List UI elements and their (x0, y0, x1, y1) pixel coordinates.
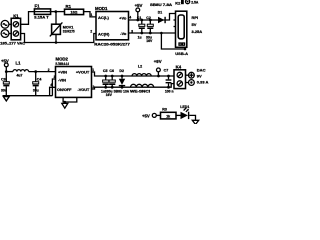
wire R3 to LED1 (176, 114, 181, 116)
AC source upper (1, 20, 11, 28)
wire MOD1 -Vo ground rail (129, 32, 176, 34)
svg-text:33u: 33u (33, 89, 39, 93)
svg-text:L1: L1 (16, 61, 22, 66)
svg-text:S10K275: S10K275 (63, 29, 75, 33)
DC/DC module MOD2 (56, 57, 92, 98)
svg-text:0.33 A: 0.33 A (197, 79, 209, 84)
capacitor C6 (105, 69, 116, 97)
choke L2 bottom winding (130, 84, 154, 93)
svg-text:+5V: +5V (135, 3, 143, 8)
AC source lower (1, 30, 11, 38)
connector K4 (174, 65, 186, 89)
supply +5V bottom left (1, 58, 9, 71)
svg-text:+Vo: +Vo (119, 15, 127, 20)
inductor L1 (13, 61, 29, 78)
svg-text:ON/OFF: ON/OFF (57, 88, 72, 92)
capacitor C4 (33, 72, 42, 96)
cropped top-right symbol (181, 0, 199, 4)
supply +5V LED (142, 113, 161, 118)
capacitor C3 (1, 72, 9, 96)
svg-text:USB-A: USB-A (175, 51, 188, 56)
svg-text:4: 4 (129, 15, 131, 19)
polarity minus symbol (186, 80, 195, 86)
resistor R3 (161, 108, 177, 119)
wire R1 to MOD1 pin 1 (84, 12, 96, 17)
wire MOD2 -VIN (52, 79, 55, 96)
node +5V junction (136, 19, 139, 22)
svg-text:D2: D2 (119, 69, 124, 73)
svg-text:K4: K4 (176, 65, 182, 70)
node shield junction (160, 32, 163, 35)
svg-text:WE-SNCI: WE-SNCI (130, 89, 150, 93)
ground MOD2 (62, 102, 68, 108)
node L1 input (5, 70, 8, 73)
svg-text:SB8U 7.8A: SB8U 7.8A (150, 3, 173, 7)
supply +9V (154, 59, 162, 76)
svg-text:SB8U 13A: SB8U 13A (114, 89, 130, 93)
svg-text:R1: R1 (66, 4, 72, 9)
svg-text:C5: C5 (103, 69, 108, 73)
svg-text:D1: D1 (158, 11, 162, 15)
diode D2 (114, 69, 130, 93)
node junction fuse/MOV (54, 10, 57, 13)
resistor R1 (65, 4, 84, 14)
svg-text:MOD1: MOD1 (95, 6, 108, 11)
wire K4 lower pin (169, 84, 175, 88)
svg-text:2: 2 (48, 68, 50, 72)
svg-text:3.15A T: 3.15A T (34, 15, 49, 19)
svg-text:+VOUT: +VOUT (76, 70, 90, 75)
capacitor C7 (164, 69, 174, 94)
svg-text:RAC20-05SK/277: RAC20-05SK/277 (94, 43, 130, 47)
svg-text:-Vo: -Vo (120, 31, 127, 36)
svg-text:16V: 16V (106, 93, 113, 97)
fuse F1 (34, 3, 50, 19)
svg-text:LED1: LED1 (180, 105, 189, 109)
wire MOD1 +Vo rail (129, 14, 176, 21)
polarity plus symbol (186, 72, 195, 78)
svg-text:1: 1 (92, 68, 94, 72)
wire MOD2 -VOUT rail (92, 87, 169, 89)
node junction MOV/bottom rail (55, 41, 58, 44)
svg-text:RPi: RPi (192, 15, 199, 20)
svg-text:AC(N): AC(N) (98, 31, 110, 36)
svg-text:9V: 9V (197, 73, 202, 78)
svg-text:1: 1 (91, 13, 93, 17)
svg-text:DAC: DAC (197, 68, 206, 73)
wire LED1 to ground (189, 115, 195, 120)
svg-text:L2: L2 (138, 65, 142, 69)
svg-text:1k: 1k (166, 115, 170, 119)
svg-text:C6: C6 (109, 69, 114, 73)
capacitor C5 (101, 69, 109, 93)
node dots output rails (104, 75, 107, 78)
choke L2 top winding (132, 65, 151, 77)
svg-text:4: 4 (50, 83, 52, 87)
wire K1 top to fuse (21, 12, 35, 25)
svg-text:K2: K2 (175, 1, 181, 6)
wire shield path (161, 33, 185, 49)
svg-text:3: 3 (131, 29, 133, 33)
wire MOD2 ON/OFF (50, 87, 56, 95)
svg-text:2: 2 (93, 85, 95, 89)
ground LED (192, 120, 198, 124)
svg-text:R3: R3 (162, 108, 167, 112)
AC/DC module MOD1 (94, 6, 130, 47)
connector K1 (11, 13, 20, 40)
svg-text:+VIN: +VIN (58, 70, 67, 75)
wire MOD2 bottom pins to ground (63, 97, 77, 102)
capacitor C2 (146, 16, 153, 43)
svg-text:C4: C4 (37, 77, 42, 81)
svg-text:K1: K1 (13, 13, 19, 18)
connector K2 USB-A (174, 1, 189, 56)
svg-text:+5V: +5V (142, 114, 150, 119)
svg-text:R-78B9.0-2.0: R-78B9.0-2.0 (56, 62, 70, 66)
wire +5V rail (6, 71, 13, 73)
svg-text:1u: 1u (138, 36, 142, 40)
svg-text:2: 2 (90, 30, 92, 34)
svg-text:F1: F1 (35, 3, 41, 8)
diode D1 (150, 3, 173, 23)
ground (3, 96, 9, 101)
svg-text:C1: C1 (137, 16, 142, 20)
svg-text:10Ω: 10Ω (71, 11, 78, 15)
wire ground rail bottom left (3, 95, 53, 97)
svg-text:4u7: 4u7 (17, 73, 23, 77)
node C1 top (140, 19, 143, 22)
svg-text:+9V: +9V (154, 59, 162, 64)
supply +5V (135, 3, 143, 20)
svg-text:185..277 VAC: 185..277 VAC (0, 40, 25, 45)
svg-text:33u: 33u (1, 89, 7, 93)
svg-text:100 n: 100 n (165, 89, 174, 93)
svg-text:-VOUT: -VOUT (77, 88, 89, 92)
svg-text:MOD2: MOD2 (56, 57, 69, 62)
varistor MOV1 (50, 12, 75, 43)
svg-text:C7: C7 (164, 69, 169, 73)
wire fuse to R1 (50, 11, 64, 13)
LED LED1 (180, 105, 189, 119)
wire L1 to MOD2 (29, 71, 56, 73)
svg-text:-VIN: -VIN (58, 77, 66, 82)
svg-text:3.25A: 3.25A (192, 29, 203, 34)
wire MOD2 +VOUT rail (92, 72, 175, 76)
svg-text:AC(L): AC(L) (98, 15, 110, 20)
svg-text:+5V: +5V (1, 58, 9, 63)
capacitor C1 (137, 16, 145, 40)
wire K1 bottom rail to MOD1 pin 2 (21, 34, 96, 43)
svg-text:C3: C3 (1, 77, 6, 81)
svg-text:16V: 16V (146, 39, 153, 43)
svg-text:5V: 5V (192, 22, 197, 27)
svg-text:2.5A: 2.5A (191, 0, 199, 4)
